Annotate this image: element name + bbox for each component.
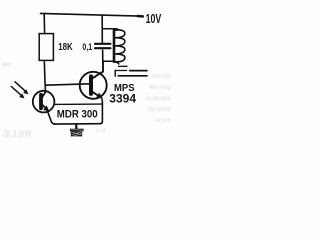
capacitor C1 0,1 top plate: [95, 43, 110, 45]
bleed-through ghost text: [146, 72, 171, 127]
Q1 base bar: [39, 95, 43, 109]
resistor R1 18K body: [39, 34, 53, 61]
Q2 emitter arrowhead: [96, 93, 102, 99]
node A base wire to Q2: [45, 84, 90, 85]
transistor Q2 MPS3394 circle: [80, 72, 107, 99]
label box top edge for MDR 300: [54, 103, 102, 105]
wire top rail end tip: [138, 15, 144, 18]
light arrow 2: [11, 87, 21, 96]
svg-text:3394: 3394: [109, 92, 136, 106]
Q1 emitter slant: [41, 104, 47, 110]
ground hatch white specks: [71, 130, 83, 137]
Q2 collector slant: [92, 72, 104, 79]
svg-text:0,1: 0,1: [82, 41, 92, 52]
wire Q1 emitter lead curving into ground rail: [47, 111, 55, 124]
Q2 base bar: [89, 76, 93, 94]
ground hatched block top bar: [70, 129, 84, 132]
wire cap bottom lead: [102, 50, 104, 72]
wire resistor top lead: [43, 14, 45, 34]
ground stem: [75, 124, 77, 129]
wire coil bottom stub: [103, 60, 115, 62]
coil bottom tail curl: [115, 62, 119, 64]
wire bottom ground rail: [54, 123, 100, 125]
relay core bar: [119, 65, 128, 67]
capacitor C1 bottom plate: [95, 47, 110, 49]
wire Q2 collector lead: [102, 61, 104, 71]
svg-text:MDR 300: MDR 300: [57, 109, 98, 121]
Q2 emitter slant: [92, 91, 100, 96]
wire cap branch from rail: [101, 15, 103, 43]
relay coil L1 loops: [114, 30, 125, 62]
phototransistor Q1 MDR300 circle: [33, 91, 55, 113]
relay contact bracket: [114, 70, 116, 76]
coil thick left bar: [113, 29, 116, 61]
wire node A down to phototransistor collector: [44, 85, 46, 91]
wire top supply rail: [41, 13, 144, 16]
svg-text:18K: 18K: [58, 41, 73, 52]
wire coil top stub: [102, 29, 118, 30]
wire resistor bottom lead to node A: [43, 60, 46, 85]
Q1 emitter arrowhead: [43, 105, 49, 111]
light arrow 1: [15, 82, 26, 92]
svg-text:10V: 10V: [146, 12, 162, 26]
ground hatched block body: [71, 131, 82, 136]
wire Q2 emitter lead down (right edge of label box) to ground rail: [100, 98, 102, 124]
Q1 collector slant: [41, 91, 46, 98]
